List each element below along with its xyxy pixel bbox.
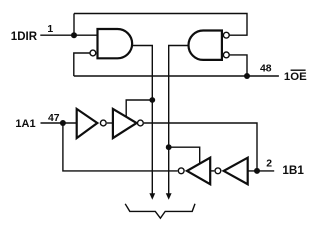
U2 bottom inverted input bubble (223, 52, 229, 58)
svg-text:2: 2 (266, 158, 272, 169)
buffer I4 (faces left) (224, 158, 248, 185)
svg-text:47: 47 (48, 113, 60, 124)
node 1OE junction (244, 73, 250, 79)
wire U2 output enable bus down (169, 46, 189, 194)
svg-text:1: 1 (47, 24, 53, 35)
node U2 enable tap (166, 144, 172, 150)
I2 output bubble (138, 120, 144, 126)
svg-text:1DIR: 1DIR (11, 31, 38, 43)
U1 inverted input bubble (90, 50, 96, 56)
node 1DIR junction (71, 32, 77, 38)
wire I3 output back to 1A1 node (63, 123, 178, 171)
I3 output bubble (178, 168, 184, 174)
buffer I1 (77, 109, 98, 138)
node 1A1 junction (60, 120, 66, 126)
wire 1DIR input (40, 34, 97, 36)
svg-text:1OE: 1OE (284, 71, 307, 83)
I1 output bubble (100, 120, 106, 126)
svg-text:48: 48 (260, 64, 272, 75)
overline over OE (291, 69, 306, 71)
wire 1OE net (74, 75, 279, 77)
wire enable tap to I3 (169, 147, 200, 163)
buffer I2 (3-state) (113, 109, 137, 138)
arrow U2 enable to other channels (166, 193, 172, 200)
wire U1 output enable bus down (131, 46, 152, 194)
wire U2 bottom input to 1OE net (229, 55, 247, 76)
brace to other channels (125, 204, 195, 218)
buffer I3 (3-state, faces left) (187, 158, 210, 185)
arrow U1 enable to other channels (149, 193, 155, 200)
wire top rail across to U2 top input (74, 14, 247, 36)
wire I4 to I3 (210, 170, 214, 172)
wire U1 bubble to 1OE net (74, 53, 90, 76)
and-gate U2 (mirrored, faces left) (189, 31, 222, 60)
U2 top inverted input bubble (223, 32, 229, 38)
wire 1DIR junction up to top rail (73, 14, 75, 36)
and-gate U1 (98, 29, 133, 58)
node U1 enable tap (149, 97, 155, 103)
I4 output bubble (215, 168, 221, 174)
svg-text:1A1: 1A1 (15, 118, 35, 130)
svg-text:1B1: 1B1 (282, 164, 304, 177)
wire 1B1 input (248, 170, 275, 172)
node 1B1 junction (254, 168, 260, 174)
wire 1A1 input (41, 122, 77, 124)
wire enable tap to I2 (126, 100, 152, 117)
wire I2 output to 1B1 node (144, 123, 257, 168)
wire I1 to I2 (107, 122, 113, 124)
